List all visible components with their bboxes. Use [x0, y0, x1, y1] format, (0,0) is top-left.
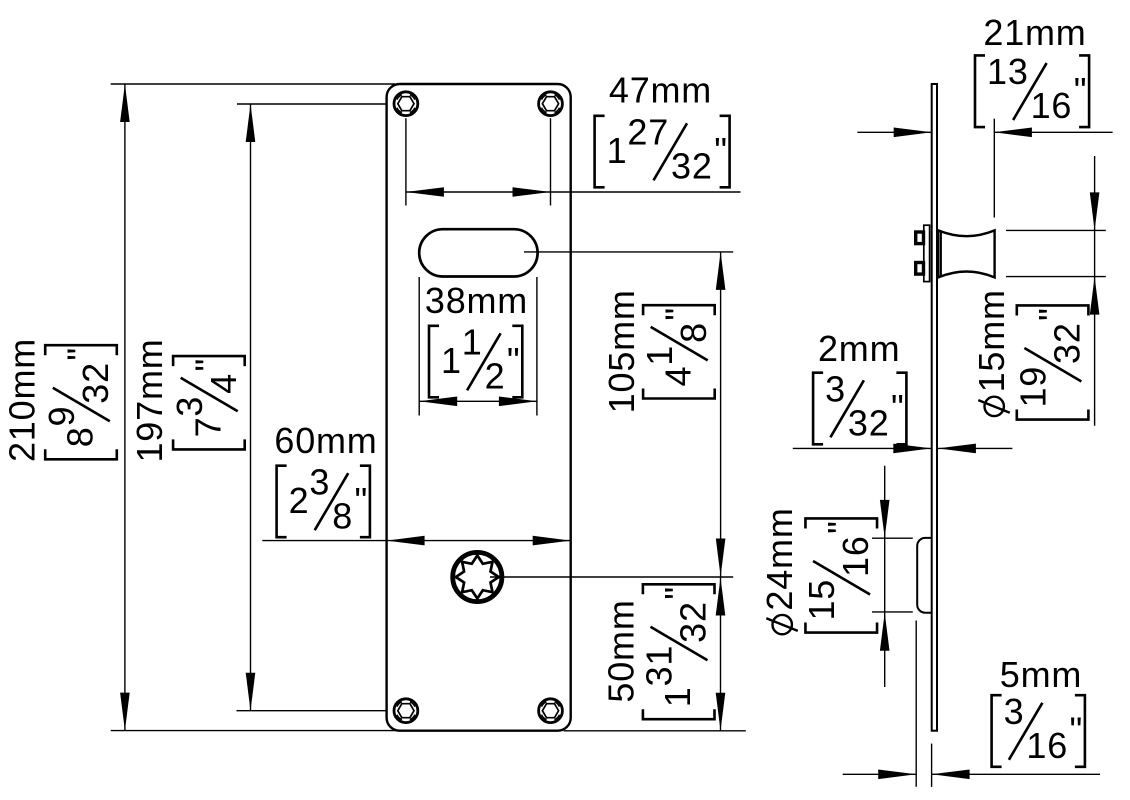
- svg-text:9: 9: [41, 406, 82, 427]
- svg-text:38mm: 38mm: [425, 280, 528, 321]
- svg-text:16: 16: [835, 535, 876, 577]
- label bracket 1 31/32in: [639, 584, 715, 719]
- dim 105mm extension line top: [524, 251, 733, 253]
- svg-text:210mm: 210mm: [2, 338, 43, 462]
- svg-text:3: 3: [1004, 691, 1025, 732]
- dim 105mm extension line bottom: [490, 576, 733, 578]
- svg-text:": ": [820, 520, 861, 534]
- dim 38mm arrow left: [419, 397, 457, 407]
- dim 197mm extension line bottom: [237, 710, 387, 712]
- svg-text:32: 32: [673, 601, 714, 643]
- label dia24mm: [759, 507, 800, 634]
- dim 38mm dimension line: [419, 400, 537, 402]
- svg-text:": ": [657, 307, 698, 321]
- label bracket 4 1/8in: [639, 305, 715, 398]
- dim 2mm dimension line left: [793, 447, 932, 449]
- dim 2mm arrow left-pointing: [938, 444, 976, 454]
- dim 21mm dimension line left: [857, 131, 931, 133]
- svg-text:8: 8: [673, 322, 714, 343]
- dim 60mm arrow right: [533, 536, 571, 546]
- side view plate profile: [932, 84, 937, 731]
- svg-text:50mm: 50mm: [601, 599, 642, 702]
- screw head lower: [916, 263, 924, 275]
- dim 210mm extension line bottom: [111, 730, 397, 732]
- dim 47mm extension line right: [550, 118, 552, 205]
- svg-text:197mm: 197mm: [129, 338, 170, 462]
- label 197mm: [129, 338, 170, 462]
- dim 5mm arrow right-pointing: [878, 770, 916, 780]
- svg-text:105mm: 105mm: [601, 289, 642, 413]
- label bracket 8 9/32in: [41, 345, 117, 459]
- dim 5mm extension line left: [915, 621, 917, 787]
- svg-text:32: 32: [1047, 322, 1088, 364]
- label bracket 13/16in: [975, 51, 1089, 127]
- dim 21mm extension line: [993, 119, 995, 218]
- dim 21mm arrow right-pointing: [894, 128, 932, 138]
- svg-text:": ": [1031, 307, 1072, 321]
- dim dia15mm arrow down: [1090, 192, 1100, 230]
- dim 50mm dimension line: [720, 578, 722, 731]
- svg-text:4: 4: [203, 373, 244, 394]
- label bracket 1 1/2in: [429, 321, 522, 397]
- screw hole bottom-right: [539, 699, 563, 723]
- svg-text:2mm: 2mm: [818, 328, 900, 369]
- dim 210mm arrow down: [120, 693, 130, 731]
- svg-text:3: 3: [309, 461, 330, 502]
- svg-text:15: 15: [801, 579, 842, 621]
- svg-text:16: 16: [1031, 85, 1073, 126]
- svg-text:4: 4: [657, 366, 698, 387]
- dim 50mm arrow down: [716, 693, 726, 731]
- svg-text:2: 2: [485, 355, 506, 396]
- label bracket 15/16in: [801, 518, 877, 632]
- dim 2mm arrow right-pointing: [893, 444, 931, 454]
- dim 197mm extension line top: [237, 103, 387, 105]
- dim 105mm arrow down: [716, 539, 726, 577]
- dim 5mm dimension line right: [932, 773, 1100, 775]
- dim dia24mm arrow down: [880, 500, 890, 538]
- svg-text:": ": [355, 480, 369, 521]
- label 105mm: [601, 289, 642, 413]
- label bracket 3/16in: [992, 691, 1085, 767]
- torx spindle hole: [453, 552, 502, 601]
- dim 105mm arrow up: [716, 252, 726, 290]
- dim dia24mm dimension line: [884, 466, 886, 687]
- dim 197mm arrow up: [246, 104, 256, 142]
- svg-text:32: 32: [848, 402, 890, 443]
- dim 50mm arrow up: [716, 578, 726, 616]
- svg-text:1: 1: [657, 686, 698, 707]
- svg-text:16: 16: [1026, 725, 1068, 766]
- dim 50mm extension line bottom: [564, 730, 746, 732]
- svg-text:": ": [60, 347, 101, 361]
- front view plate outline: [387, 84, 571, 731]
- svg-text:": ": [187, 358, 228, 372]
- svg-text:": ": [1070, 710, 1084, 751]
- svg-text:27: 27: [627, 111, 669, 152]
- dim 197mm arrow down: [246, 673, 256, 711]
- dim 21mm arrow left-pointing: [994, 128, 1032, 138]
- dim dia15mm extension line bottom: [1006, 276, 1106, 278]
- svg-text:15mm: 15mm: [971, 289, 1012, 392]
- dim 210mm dimension line: [124, 84, 126, 731]
- svg-text:32: 32: [75, 362, 116, 404]
- dim 60mm arrow left: [387, 536, 425, 546]
- dim 60mm dimension line: [262, 540, 570, 542]
- dim 38mm extension line right: [536, 277, 538, 416]
- svg-text:24mm: 24mm: [759, 507, 800, 610]
- screw hole top-left: [394, 92, 418, 116]
- svg-text:21mm: 21mm: [983, 12, 1086, 53]
- oval slot: [419, 229, 537, 276]
- svg-text:": ": [891, 387, 905, 428]
- svg-text:": ": [657, 586, 698, 600]
- dim 38mm arrow right: [499, 397, 537, 407]
- label bracket 3/32in: [813, 368, 906, 444]
- svg-text:5mm: 5mm: [1000, 654, 1082, 695]
- dim 2mm dimension line right: [938, 447, 1013, 449]
- spindle fixing plate strip: [924, 225, 930, 281]
- dim 47mm dimension line: [406, 191, 741, 193]
- dim 5mm extension line right: [931, 744, 933, 787]
- svg-text:13: 13: [987, 51, 1029, 92]
- dim 5mm dimension line left: [843, 773, 917, 775]
- dim 197mm dimension line: [250, 104, 252, 711]
- svg-text:1: 1: [607, 130, 628, 171]
- dim 38mm extension line left: [418, 277, 420, 416]
- boss bump profile: [917, 538, 932, 613]
- dim dia15mm extension line top: [1006, 229, 1106, 231]
- dim dia24mm extension line bottom: [872, 611, 913, 613]
- svg-text:": ": [507, 340, 521, 381]
- svg-text:19: 19: [1013, 366, 1054, 408]
- dim dia24mm extension line top: [872, 537, 913, 539]
- label 210mm: [2, 338, 43, 462]
- svg-text:3: 3: [169, 396, 210, 417]
- dim 210mm extension line top: [111, 83, 395, 85]
- knob profile: [938, 230, 994, 277]
- dim 105mm dimension line: [720, 252, 722, 577]
- label 50mm: [601, 599, 642, 702]
- svg-text:60mm: 60mm: [274, 420, 377, 461]
- svg-text:3: 3: [825, 368, 846, 409]
- dim dia24mm arrow up: [880, 613, 890, 651]
- label dia15mm: [971, 289, 1012, 416]
- svg-text:7: 7: [187, 417, 228, 438]
- screw head upper: [916, 232, 924, 244]
- dim 47mm arrow left: [406, 187, 444, 197]
- dim dia15mm arrow up: [1090, 277, 1100, 315]
- dim 47mm extension line left: [405, 118, 407, 205]
- label bracket 19/32in: [1013, 305, 1089, 419]
- dim 5mm arrow left-pointing: [932, 770, 970, 780]
- svg-text:": ": [1074, 70, 1088, 111]
- svg-text:1: 1: [441, 340, 462, 381]
- screw hole bottom-left: [394, 699, 418, 723]
- svg-text:2: 2: [289, 480, 310, 521]
- svg-text:32: 32: [671, 145, 713, 186]
- svg-text:47mm: 47mm: [609, 70, 712, 111]
- dim 210mm arrow up: [120, 84, 130, 122]
- screw hole top-right: [539, 92, 563, 116]
- label bracket 7 3/4in: [169, 356, 245, 449]
- dim 47mm arrow right: [513, 187, 551, 197]
- dim 21mm dimension line right: [994, 131, 1113, 133]
- svg-text:1: 1: [462, 321, 483, 362]
- svg-text:8: 8: [60, 426, 101, 447]
- svg-text:1: 1: [639, 345, 680, 366]
- svg-text:8: 8: [332, 495, 353, 536]
- svg-text:31: 31: [639, 645, 680, 687]
- dim dia15mm dimension line: [1094, 156, 1096, 426]
- svg-text:": ": [714, 130, 728, 171]
